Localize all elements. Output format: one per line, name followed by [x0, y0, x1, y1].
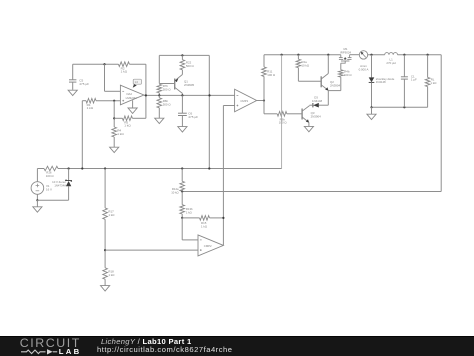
resistor RL — [425, 55, 437, 108]
junction R15 CMP2 output — [222, 217, 224, 219]
junction C1 bottom — [403, 106, 405, 108]
resistor R4 — [112, 127, 124, 137]
junction +10V left vertical — [208, 167, 210, 169]
svg-text:0.000 A: 0.000 A — [359, 67, 369, 71]
annotation flag on OA2 output — [133, 79, 142, 88]
resistor R1 — [86, 98, 96, 110]
resistor R2 — [118, 62, 129, 74]
resistor R17 — [103, 169, 115, 220]
inductor L1 — [385, 53, 398, 65]
wire R9b to Q3 base — [287, 113, 302, 115]
wire R4 to ground — [113, 137, 115, 147]
svg-text:1 µF: 1 µF — [411, 78, 417, 82]
resistor R18 — [103, 268, 115, 279]
svg-text:2N3904: 2N3904 — [330, 83, 341, 87]
resistor R6b — [157, 95, 171, 107]
ground under Q3 — [304, 126, 313, 131]
resistor R7b — [157, 84, 171, 93]
svg-text:1 kΩ: 1 kΩ — [87, 106, 94, 110]
op-amp OA2 — [120, 85, 143, 105]
junction R15 tap — [181, 217, 183, 219]
wire V1 top — [36, 169, 38, 182]
wire V1 bottom — [36, 194, 38, 200]
wire OA2 output bus — [144, 94, 235, 96]
wire flyback diode top — [371, 55, 373, 78]
junction C1 rail — [403, 54, 405, 56]
wire +10V vertical right — [281, 55, 283, 169]
wire output filter bottom — [372, 106, 428, 108]
wire Q2 collector — [327, 55, 329, 74]
junction R12a top — [181, 167, 183, 169]
ground under V1 — [33, 200, 42, 212]
wire Q1 base — [159, 83, 174, 85]
transistor Q2 2N3904 NPN — [321, 74, 340, 91]
ground under C5 — [68, 90, 77, 95]
ground under R18 — [101, 286, 110, 291]
wire feedback top left segment — [73, 63, 119, 65]
svg-text:16 V: 16 V — [46, 188, 52, 192]
svg-text:1 kΩ: 1 kΩ — [108, 273, 115, 277]
wire CMP2 minus input — [182, 239, 198, 241]
junction RL rail — [427, 54, 429, 56]
junction divider mid — [104, 249, 106, 251]
junction +10V rail — [281, 54, 283, 56]
svg-text:100 Ω: 100 Ω — [46, 174, 55, 178]
resistor R5 — [122, 116, 132, 128]
wire node to R5 vertical — [113, 101, 115, 127]
junction flyback diode rail — [370, 54, 372, 56]
junction +10V on output bus — [208, 94, 210, 96]
wire zener bottom — [37, 199, 68, 201]
wire rail to Q1 base node — [158, 55, 160, 83]
junction non-inverting node — [113, 100, 115, 102]
junction ground filter — [370, 106, 372, 108]
capacitor C1 — [401, 55, 417, 108]
transistor Q1 2N3905 PNP — [175, 70, 195, 96]
MOSFET M1 IRF9024 — [339, 47, 352, 63]
junction feedback node — [103, 63, 105, 65]
ground under R6b — [155, 118, 164, 123]
wire to R1 from regulator node — [82, 100, 86, 102]
CircuitLab logo — [0, 337, 100, 356]
wire R15 right — [210, 217, 224, 219]
diode flyback 1N4148 — [369, 77, 395, 84]
svg-text:1 kΩ: 1 kΩ — [117, 132, 124, 136]
svg-text:1 kΩ: 1 kΩ — [430, 81, 437, 85]
wire R2a to Q2 base — [298, 80, 321, 82]
wire R2a down — [297, 68, 299, 82]
wire output node down — [263, 101, 265, 114]
wire R5 right — [132, 117, 146, 119]
junction CMP1 output node — [263, 99, 265, 101]
voltage source V1 — [31, 182, 52, 195]
svg-text:500 Ω: 500 Ω — [163, 102, 172, 106]
svg-text:270 µH: 270 µH — [386, 61, 395, 65]
transistor Q3 2N3904 NPN — [302, 106, 321, 123]
wire right top rail segment 1 — [264, 54, 341, 56]
resistor R9b — [277, 112, 287, 125]
wire R11 to output node — [263, 76, 265, 100]
diode D3 1N4148 — [312, 95, 323, 107]
wire R1 node vertical down — [81, 101, 83, 169]
wire divider to CMP2 plus — [105, 249, 198, 251]
wire right top rail segment 3 — [368, 54, 385, 56]
svg-text:100 Ω: 100 Ω — [279, 121, 288, 125]
svg-text:1 kΩ: 1 kΩ — [124, 124, 131, 128]
wire CMP1 plus vertical to CMP2 output — [222, 106, 224, 246]
resistor R11 — [262, 55, 276, 77]
junction output-feedback — [145, 94, 147, 96]
wire R5 left — [114, 117, 122, 119]
junction R2a rail — [297, 54, 299, 56]
wire gate resistor to emitter node — [340, 77, 342, 91]
wire right top rail segment 2 — [350, 54, 360, 56]
svg-text:100 Ω: 100 Ω — [344, 73, 353, 77]
wire CMP2 minus vertical — [181, 218, 183, 240]
wire Q3 collector to D3 — [310, 104, 313, 106]
ground output filter — [367, 107, 376, 119]
svg-text:1 kΩ: 1 kΩ — [186, 210, 192, 214]
junction R12a bottom rail return — [181, 190, 183, 192]
resistor R2a — [296, 55, 310, 68]
wire right rail return — [182, 191, 441, 193]
wire +10V vertical left — [208, 55, 210, 168]
svg-text:500 Ω: 500 Ω — [163, 87, 172, 91]
wire feedback top right segment — [129, 63, 146, 65]
svg-text:10 kΩ: 10 kΩ — [301, 63, 309, 67]
zener diode 1N4734A — [52, 169, 72, 201]
wire right rail vertical — [440, 55, 442, 192]
wire Q3 emitter lead — [308, 122, 310, 126]
ammeter Amm — [359, 51, 369, 72]
wire R18 to ground — [104, 279, 106, 285]
junction V1 ground node — [36, 199, 38, 201]
junction R17 chain top — [104, 167, 106, 169]
junction zener — [68, 167, 70, 169]
wire Q2 emitter down — [327, 91, 329, 106]
wire flyback diode bottom — [371, 82, 373, 107]
svg-text:2N3905: 2N3905 — [184, 83, 195, 87]
wire CMP1 plus input — [223, 105, 234, 107]
resistor R12a — [171, 169, 184, 195]
capacitor C5 — [69, 64, 89, 90]
svg-text:IRF9024: IRF9024 — [340, 50, 351, 54]
op-amp CMP1 — [235, 89, 257, 112]
resistor R4b gate — [339, 63, 353, 77]
ground op-amp OA2 power pin — [128, 100, 137, 113]
wire inverting input — [105, 90, 121, 92]
wire left top rail — [159, 54, 209, 56]
svg-text:2N3904: 2N3904 — [311, 114, 322, 118]
junction R1 feed — [81, 167, 83, 169]
resistor R22 — [180, 55, 194, 69]
wire right top rail segment 4 — [398, 54, 442, 56]
junction R7b output bus — [158, 94, 160, 96]
svg-text:1 kΩ: 1 kΩ — [121, 70, 128, 74]
resistor R16 — [44, 166, 58, 178]
wire regulator node — [58, 168, 282, 170]
resistor R13b — [180, 192, 193, 218]
svg-text:1 kΩ: 1 kΩ — [201, 224, 208, 228]
wire R17 to node — [104, 219, 106, 267]
wire CMP1 output — [257, 100, 264, 102]
svg-text:475 µF: 475 µF — [188, 115, 198, 119]
wire inverting input vertical — [104, 64, 106, 91]
junction Q1 collector output bus — [181, 94, 183, 96]
wire D3 anode — [319, 104, 329, 106]
svg-text:500 Ω: 500 Ω — [186, 64, 195, 68]
svg-text:1N4148: 1N4148 — [376, 80, 386, 84]
wire R15 left — [182, 217, 199, 219]
ground under C6 — [178, 127, 187, 132]
wire Q2 emitter to gate resistor — [328, 90, 341, 92]
svg-text:10 kΩ: 10 kΩ — [171, 190, 178, 194]
svg-text:100 Ω: 100 Ω — [267, 73, 276, 77]
svg-text:1 kΩ: 1 kΩ — [108, 213, 115, 217]
op-amp CMP2 — [198, 235, 223, 256]
capacitor C6 — [178, 95, 198, 126]
svg-text:1N4148: 1N4148 — [312, 99, 323, 103]
junction R5 tap — [113, 117, 115, 119]
wire R6b to ground — [158, 108, 160, 118]
junction R22 top — [181, 54, 183, 56]
junction Q2 collector rail — [327, 54, 329, 56]
svg-text:CMP2: CMP2 — [204, 244, 212, 248]
resistor R15 — [200, 216, 210, 229]
svg-text:CMP1: CMP1 — [240, 99, 248, 103]
svg-text:1N4734A: 1N4734A — [54, 183, 66, 187]
wire R7b to output bus — [158, 93, 160, 96]
wire to R9b — [264, 113, 277, 115]
svg-text:475 µF: 475 µF — [79, 82, 89, 86]
wire feedback right vertical — [145, 64, 147, 118]
wire regulator top left — [37, 168, 44, 170]
svg-text:LM324N: LM324N — [126, 96, 137, 100]
wire non-inverting input — [96, 100, 120, 102]
ground under R4 — [110, 147, 119, 152]
